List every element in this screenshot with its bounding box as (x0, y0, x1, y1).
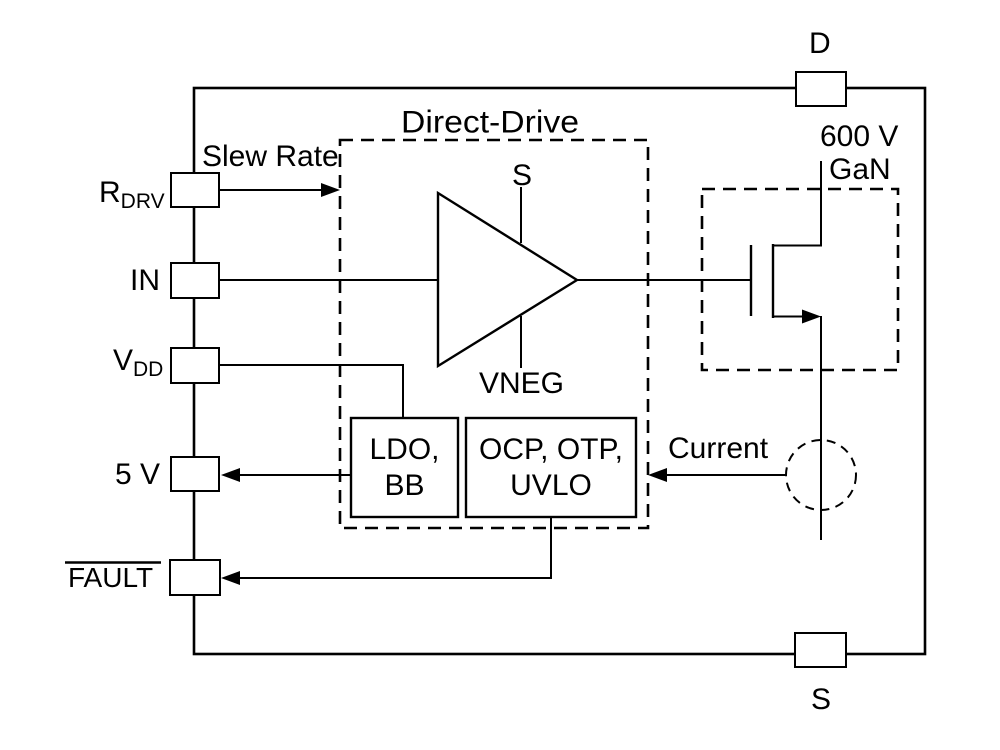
block OCP, OTP, UVLO (466, 418, 636, 517)
wire VDD to LDO (219, 365, 403, 419)
svg-text:OCP, OTP,: OCP, OTP, (479, 433, 623, 466)
svg-text:GaN: GaN (829, 153, 891, 186)
transistor Q1 channel bar (772, 244, 774, 318)
svg-text:Current: Current (668, 432, 769, 465)
wire drain horizontal (772, 245, 822, 247)
pin FAULT rectangle (170, 560, 220, 595)
pin D rectangle (796, 72, 846, 106)
svg-text:IN: IN (130, 264, 160, 297)
wire LDO to 5V pin (236, 474, 351, 476)
wire OCP to FAULT pin (236, 517, 551, 578)
wire source vertical through current sense (820, 316, 822, 540)
svg-text:S: S (811, 683, 831, 716)
pin IN rectangle (171, 263, 219, 298)
arrowhead 5V (points left) (221, 468, 240, 482)
svg-text:LDO,: LDO, (369, 433, 439, 466)
svg-text:S: S (512, 159, 532, 192)
svg-text:UVLO: UVLO (510, 469, 592, 502)
wire current sense to OCP block (663, 474, 786, 476)
wire slew rate RDRV to Direct-Drive block (219, 189, 325, 191)
chip boundary (IC outline) (194, 88, 925, 654)
wire source horizontal (772, 316, 806, 318)
arrowhead FAULT (points left) (221, 571, 240, 585)
pin RDRV rectangle (171, 173, 219, 207)
current sense source (dashed circle) (786, 440, 856, 510)
node VNEG stub below buffer (520, 316, 522, 368)
dashed block GaN FET (702, 189, 898, 370)
op-amp buffer U1 (gate driver) (438, 193, 577, 366)
FAULT overline (65, 561, 161, 564)
arrowhead current (points left) (648, 468, 667, 482)
block LDO, BB (351, 418, 458, 517)
arrowhead slew rate (points right) (321, 183, 340, 197)
wire drain vertical to D pin (820, 161, 822, 246)
svg-text:D: D (809, 27, 831, 60)
pin 5V rectangle (171, 457, 219, 491)
wire IN to buffer input (219, 279, 439, 281)
node S stub above buffer (520, 187, 522, 243)
svg-text:BB: BB (384, 469, 424, 502)
svg-text:FAULT: FAULT (68, 562, 153, 593)
dashed block Direct-Drive (340, 140, 648, 528)
svg-text:600 V: 600 V (820, 120, 898, 153)
transistor Q1 gate bar (750, 245, 752, 316)
svg-text:Slew Rate: Slew Rate (202, 140, 339, 173)
svg-text:VNEG: VNEG (479, 367, 564, 400)
arrowhead source (points right) (802, 310, 821, 324)
svg-text:Direct-Drive: Direct-Drive (401, 104, 579, 140)
svg-text:5 V: 5 V (115, 458, 160, 491)
pin S rectangle (bottom) (795, 633, 846, 667)
wire buffer output to gate (576, 279, 752, 281)
pin VDD rectangle (171, 348, 219, 383)
